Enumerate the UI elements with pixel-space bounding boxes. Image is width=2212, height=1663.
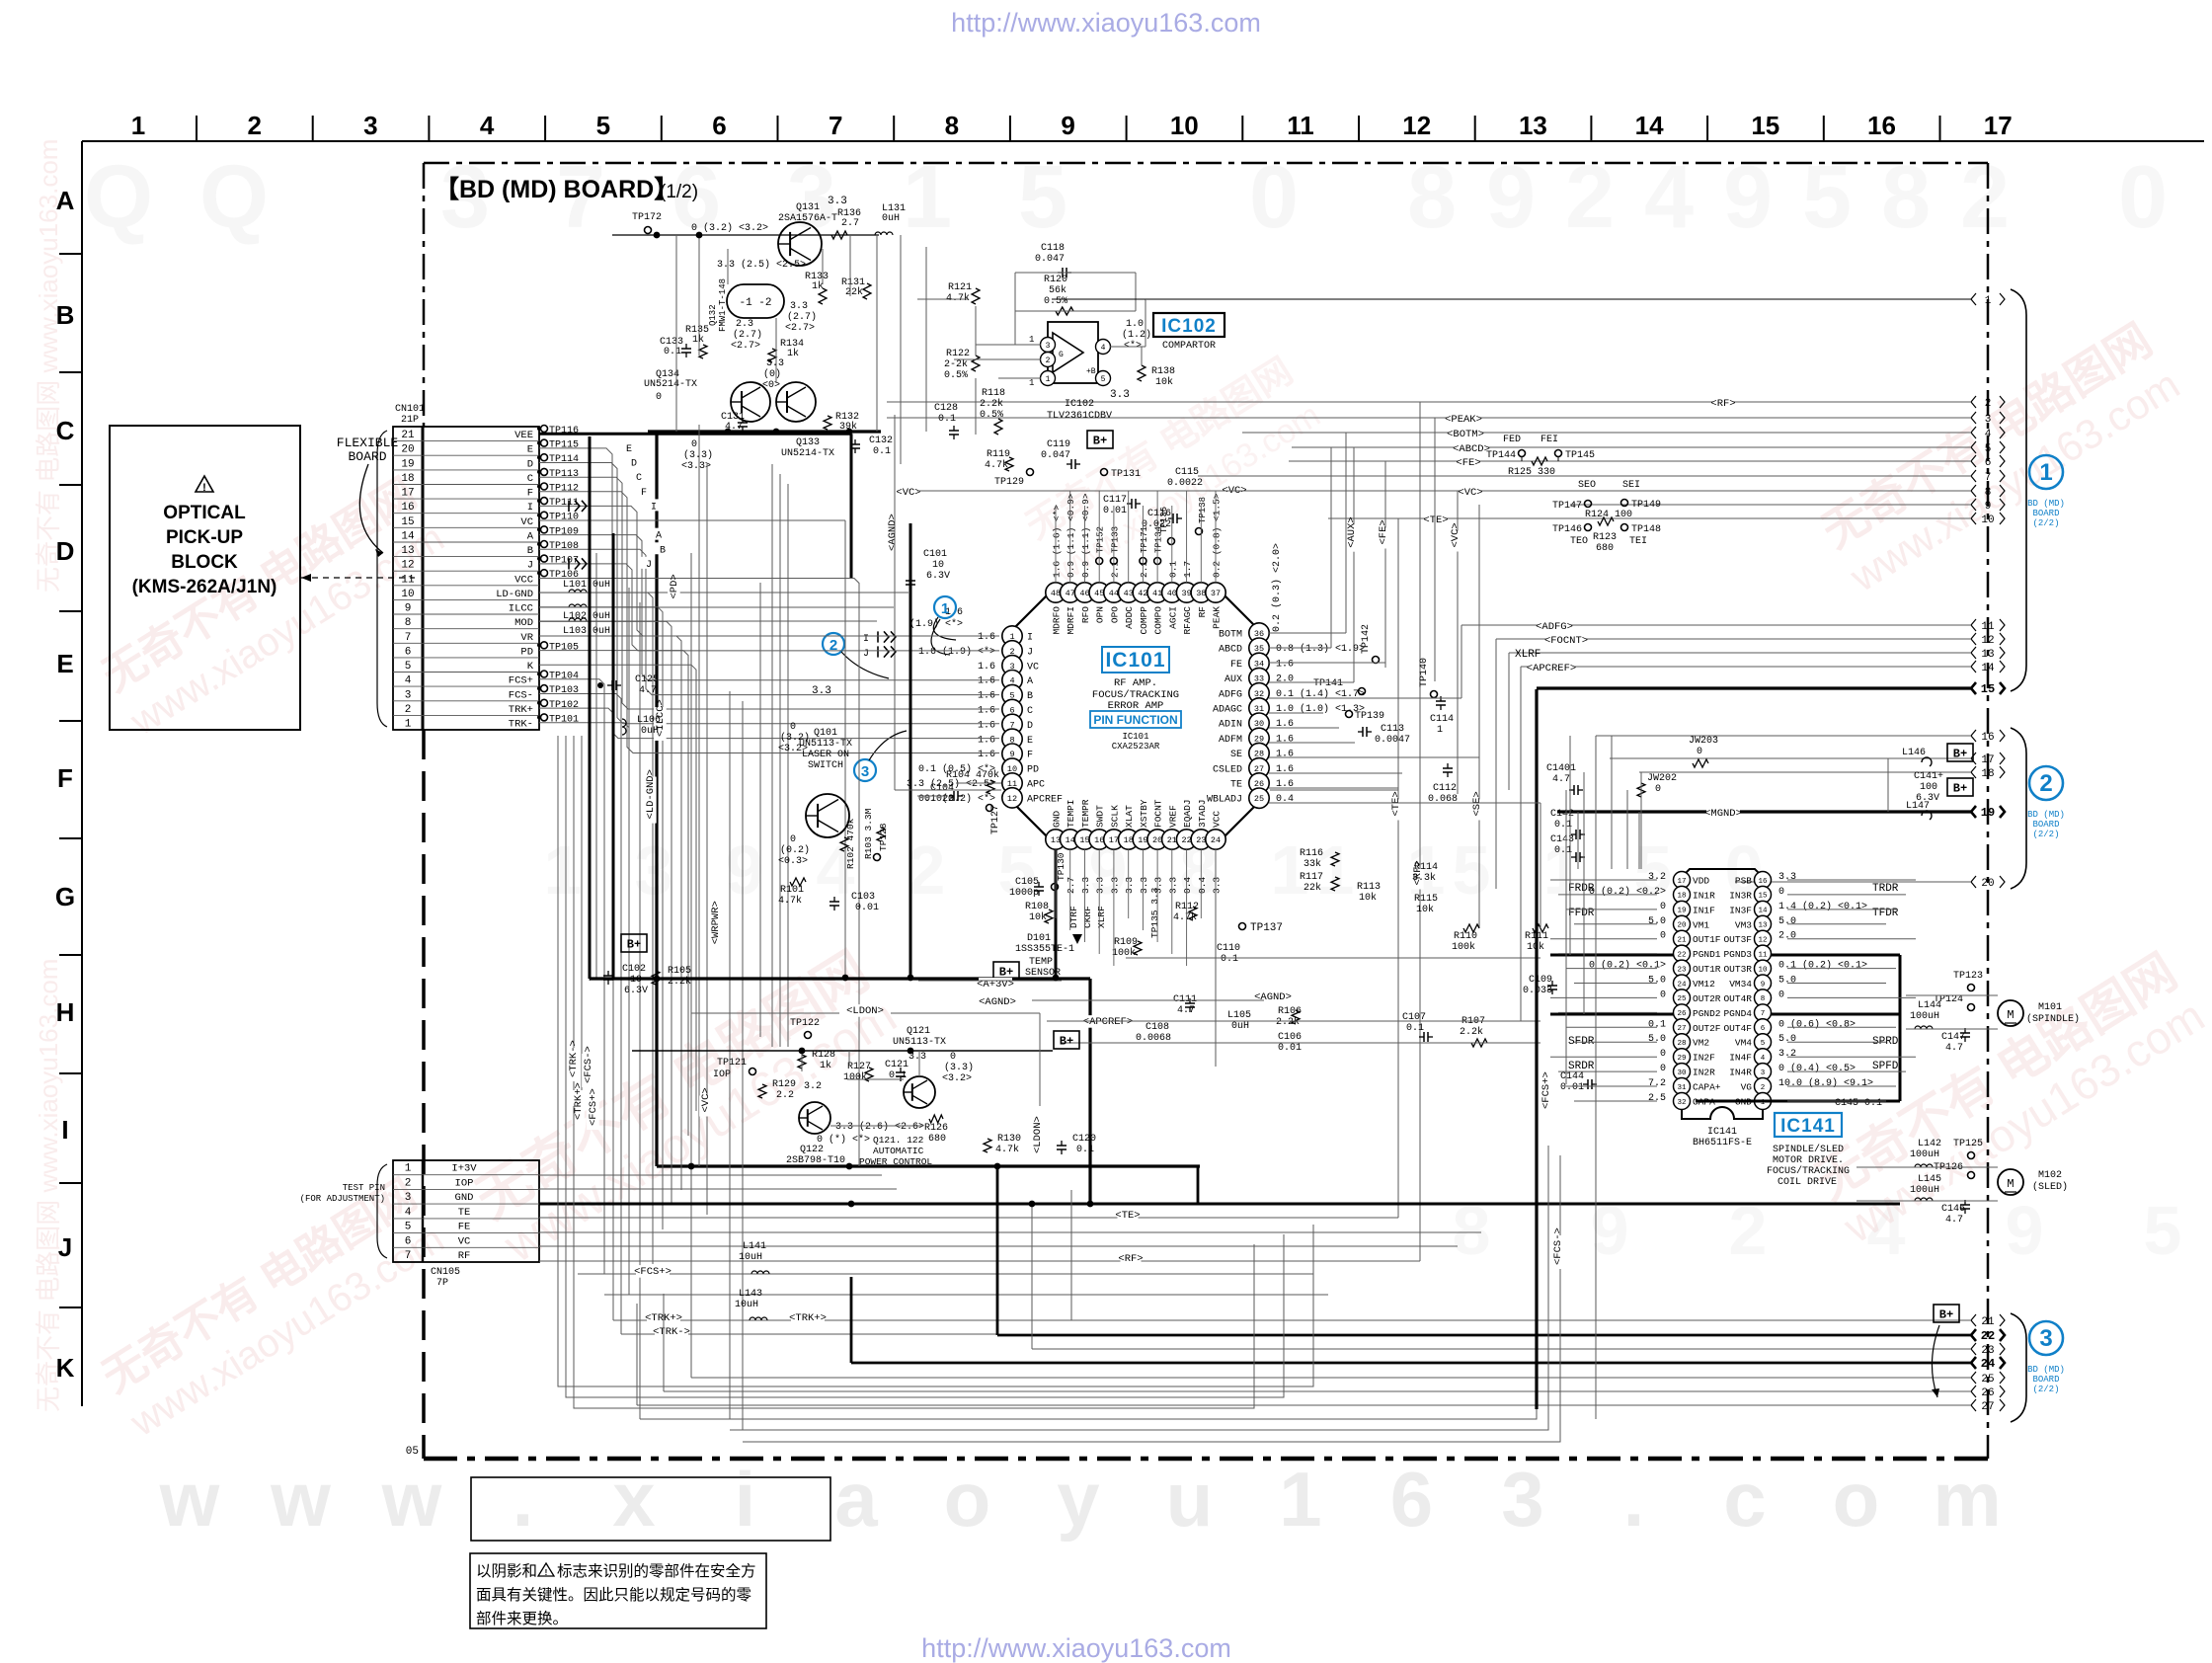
svg-text:TP131: TP131 bbox=[1111, 469, 1141, 480]
svg-text:R118: R118 bbox=[982, 388, 1005, 399]
svg-text:29: 29 bbox=[1677, 1055, 1686, 1063]
svg-text:C119: C119 bbox=[1047, 439, 1070, 450]
svg-text:9: 9 bbox=[1761, 981, 1766, 989]
svg-text:<TRK+>: <TRK+> bbox=[789, 1312, 827, 1324]
svg-text:0.047: 0.047 bbox=[1041, 450, 1070, 461]
svg-text:TP140: TP140 bbox=[1419, 658, 1430, 687]
svg-text:OUT2F: OUT2F bbox=[1693, 1023, 1721, 1034]
svg-text:0.0068: 0.0068 bbox=[1136, 1033, 1171, 1044]
svg-text:TP133: TP133 bbox=[1110, 526, 1120, 553]
svg-text:3.3 (2.6) <2.6>: 3.3 (2.6) <2.6> bbox=[835, 1121, 924, 1133]
svg-text:8: 8 bbox=[405, 617, 412, 629]
svg-text:<LDON>: <LDON> bbox=[1032, 1116, 1044, 1153]
svg-text:0.4: 0.4 bbox=[1182, 877, 1193, 894]
svg-text:IN2R: IN2R bbox=[1693, 1068, 1715, 1078]
svg-text:0 (0.6) <0.8>: 0 (0.6) <0.8> bbox=[1778, 1018, 1856, 1030]
svg-text:SPINDLE/SLED: SPINDLE/SLED bbox=[1773, 1144, 1844, 1155]
svg-text:TP103: TP103 bbox=[549, 685, 579, 696]
svg-text:RF AMP.: RF AMP. bbox=[1114, 677, 1157, 689]
svg-text:(2/2): (2/2) bbox=[2032, 830, 2059, 839]
svg-text:2: 2 bbox=[1046, 356, 1051, 365]
svg-text:100uH: 100uH bbox=[1910, 1149, 1939, 1160]
svg-text:15: 15 bbox=[1079, 835, 1089, 845]
svg-text:VM1: VM1 bbox=[1693, 919, 1709, 930]
svg-text:12: 12 bbox=[1758, 937, 1767, 945]
svg-text:24: 24 bbox=[1211, 835, 1221, 845]
svg-text:R127: R127 bbox=[847, 1062, 871, 1072]
svg-text:C118: C118 bbox=[1041, 243, 1065, 254]
svg-text:I: I bbox=[651, 502, 657, 513]
svg-text:IC141: IC141 bbox=[1780, 1116, 1836, 1137]
svg-text:2: 2 bbox=[1761, 1084, 1766, 1092]
svg-text:FMW1-T-148: FMW1-T-148 bbox=[718, 278, 728, 332]
svg-text:32: 32 bbox=[1677, 1099, 1686, 1107]
svg-text:0uH: 0uH bbox=[641, 726, 659, 737]
svg-text:MDRFO: MDRFO bbox=[1052, 606, 1063, 635]
svg-text:B+: B+ bbox=[1060, 1035, 1073, 1049]
svg-text:B+: B+ bbox=[999, 966, 1013, 980]
svg-text:3: 3 bbox=[1761, 1069, 1766, 1077]
svg-text:TP108: TP108 bbox=[549, 541, 579, 552]
svg-text:(SLED): (SLED) bbox=[2032, 1181, 2068, 1193]
svg-text:<FCS+>: <FCS+> bbox=[588, 1088, 599, 1126]
svg-text:6: 6 bbox=[405, 1235, 412, 1247]
svg-text:B+: B+ bbox=[1953, 748, 1967, 761]
svg-text:<VC>: <VC> bbox=[1450, 522, 1461, 547]
svg-text:27: 27 bbox=[1677, 1025, 1686, 1033]
svg-text:(2.7): (2.7) bbox=[733, 329, 762, 341]
svg-text:1k: 1k bbox=[812, 280, 824, 292]
svg-text:TEMPI: TEMPI bbox=[1066, 799, 1076, 828]
svg-text:FED: FED bbox=[1503, 435, 1521, 445]
svg-text:G: G bbox=[1059, 351, 1064, 359]
svg-text:B: B bbox=[527, 545, 533, 557]
svg-text:1.6: 1.6 bbox=[978, 676, 995, 687]
svg-text:6.3V: 6.3V bbox=[1916, 793, 1939, 804]
svg-text:2: 2 bbox=[2039, 770, 2052, 797]
svg-text:10k: 10k bbox=[1416, 904, 1434, 915]
svg-text:<VC>: <VC> bbox=[896, 487, 920, 499]
svg-text:w: w bbox=[270, 1456, 331, 1543]
svg-text:<FCS->: <FCS-> bbox=[583, 1046, 594, 1083]
svg-text:2: 2 bbox=[908, 831, 946, 909]
svg-text:TP109: TP109 bbox=[549, 526, 579, 537]
svg-text:1: 1 bbox=[1029, 378, 1034, 388]
svg-text:XLRF: XLRF bbox=[1096, 906, 1107, 928]
svg-text:CXA2523AR: CXA2523AR bbox=[1112, 742, 1160, 752]
svg-text:2.2k: 2.2k bbox=[980, 398, 1003, 410]
svg-text:14: 14 bbox=[401, 531, 415, 543]
svg-text:FRDR: FRDR bbox=[1568, 883, 1595, 895]
svg-text:OPTICAL: OPTICAL bbox=[163, 503, 246, 523]
svg-text:0.8 (1.3) <1.9>: 0.8 (1.3) <1.9> bbox=[1276, 643, 1365, 655]
svg-text:0.2 (0.3) <2.0>: 0.2 (0.3) <2.0> bbox=[1271, 543, 1283, 632]
svg-text:TP102: TP102 bbox=[549, 700, 579, 711]
svg-text:C112: C112 bbox=[1433, 783, 1457, 794]
svg-text:0: 0 bbox=[1660, 931, 1666, 942]
svg-text:http://www.xiaoyu163.com: http://www.xiaoyu163.com bbox=[921, 1633, 1231, 1663]
svg-text:14: 14 bbox=[1758, 908, 1768, 915]
svg-text:0.2 (0.8) <1.5>: 0.2 (0.8) <1.5> bbox=[1212, 493, 1223, 578]
svg-text:13: 13 bbox=[1519, 111, 1547, 140]
svg-text:26: 26 bbox=[1981, 1387, 1994, 1399]
svg-text:1k: 1k bbox=[692, 334, 704, 346]
svg-text:25: 25 bbox=[1254, 794, 1264, 804]
svg-text:0.01: 0.01 bbox=[855, 903, 879, 913]
svg-text:C: C bbox=[636, 473, 642, 484]
svg-text:5.0: 5.0 bbox=[1778, 916, 1796, 927]
svg-text:JW202: JW202 bbox=[1647, 773, 1677, 784]
svg-text:<APCREF>: <APCREF> bbox=[1527, 663, 1576, 674]
svg-text:1.0: 1.0 bbox=[1126, 319, 1144, 330]
svg-text:<FE>: <FE> bbox=[1378, 519, 1389, 544]
svg-text:<ADFG>: <ADFG> bbox=[1536, 621, 1573, 633]
svg-text:IN3F: IN3F bbox=[1729, 905, 1752, 915]
svg-text:4: 4 bbox=[1985, 429, 1992, 440]
svg-text:<MGND>: <MGND> bbox=[1704, 808, 1742, 820]
svg-text:16: 16 bbox=[401, 502, 414, 514]
svg-text:9: 9 bbox=[2006, 1192, 2044, 1269]
svg-text:1.6: 1.6 bbox=[978, 691, 995, 702]
svg-text:42: 42 bbox=[1138, 589, 1147, 598]
svg-text:以阴影和: 以阴影和 bbox=[476, 1562, 537, 1580]
svg-text:VC: VC bbox=[1027, 662, 1039, 673]
svg-text:UN5214-TX: UN5214-TX bbox=[644, 379, 697, 390]
svg-text:TE: TE bbox=[1230, 780, 1242, 791]
svg-text:33k: 33k bbox=[1303, 858, 1321, 870]
svg-text:SEI: SEI bbox=[1622, 480, 1640, 491]
svg-text:3.3: 3.3 bbox=[1109, 877, 1120, 894]
svg-text:L141: L141 bbox=[743, 1241, 766, 1252]
svg-text:o: o bbox=[1833, 1456, 1880, 1543]
svg-text:R120: R120 bbox=[1044, 275, 1067, 285]
svg-text:1.4 (0.2) <0.1>: 1.4 (0.2) <0.1> bbox=[1778, 901, 1867, 912]
svg-text:<TE>: <TE> bbox=[1423, 515, 1448, 526]
svg-text:0.1 (0.2) <0.1>: 0.1 (0.2) <0.1> bbox=[1778, 960, 1867, 972]
svg-text:F: F bbox=[57, 763, 73, 793]
svg-text:(SPINDLE): (SPINDLE) bbox=[2026, 1013, 2080, 1025]
svg-text:-1 -2: -1 -2 bbox=[739, 297, 771, 309]
svg-text:1.6: 1.6 bbox=[1276, 659, 1294, 670]
svg-text:FLEXIBLE: FLEXIBLE bbox=[337, 436, 399, 450]
svg-text:3: 3 bbox=[363, 111, 377, 140]
svg-text:10k: 10k bbox=[1155, 376, 1173, 388]
svg-text:<RF>: <RF> bbox=[1118, 1253, 1143, 1265]
svg-text:0: 0 bbox=[1660, 1049, 1666, 1060]
svg-text:<TRK->: <TRK-> bbox=[653, 1326, 690, 1338]
svg-text:C132: C132 bbox=[869, 436, 893, 446]
svg-text:Q131: Q131 bbox=[796, 202, 820, 213]
svg-text:TP111: TP111 bbox=[549, 498, 579, 509]
svg-text:FOCUS/TRACKING: FOCUS/TRACKING bbox=[1767, 1165, 1850, 1177]
svg-text:<AGND>: <AGND> bbox=[887, 514, 899, 551]
svg-text:1k: 1k bbox=[787, 348, 799, 359]
svg-text:BOARD: BOARD bbox=[2032, 820, 2059, 830]
svg-text:7: 7 bbox=[1985, 472, 1992, 484]
svg-text:1.6: 1.6 bbox=[1276, 750, 1294, 760]
svg-text:J: J bbox=[646, 560, 652, 571]
svg-text:1.6: 1.6 bbox=[978, 632, 995, 643]
svg-text:TEI: TEI bbox=[1629, 536, 1647, 547]
svg-text:100uH: 100uH bbox=[1910, 1185, 1939, 1196]
svg-text:4.7k: 4.7k bbox=[778, 895, 802, 907]
svg-text:R108: R108 bbox=[1025, 902, 1049, 912]
svg-text:Q122: Q122 bbox=[800, 1145, 824, 1155]
svg-text:TP115: TP115 bbox=[549, 440, 579, 451]
svg-text:VM2: VM2 bbox=[1693, 1038, 1709, 1049]
svg-text:D101: D101 bbox=[1027, 933, 1051, 944]
svg-text:<LD-GND>: <LD-GND> bbox=[645, 769, 657, 819]
svg-text:13: 13 bbox=[1758, 922, 1768, 930]
svg-text:R121: R121 bbox=[948, 282, 972, 293]
svg-text:PGND3: PGND3 bbox=[1723, 949, 1752, 960]
svg-text:<2.7>: <2.7> bbox=[785, 323, 815, 334]
svg-text:680: 680 bbox=[1596, 543, 1614, 554]
svg-text:0 (0.2) <0.1>: 0 (0.2) <0.1> bbox=[1589, 960, 1666, 972]
svg-text:0.0047: 0.0047 bbox=[1375, 735, 1410, 746]
svg-text:19: 19 bbox=[1138, 835, 1147, 845]
svg-text:18: 18 bbox=[1124, 835, 1134, 845]
svg-text:0.5%: 0.5% bbox=[944, 370, 968, 381]
svg-text:PIN FUNCTION: PIN FUNCTION bbox=[1093, 713, 1177, 727]
svg-text:CKRF: CKRF bbox=[1082, 906, 1093, 928]
svg-text:3: 3 bbox=[861, 763, 869, 780]
svg-text:16: 16 bbox=[1094, 835, 1104, 845]
svg-text:0.01: 0.01 bbox=[1278, 1043, 1302, 1054]
svg-text:1.6: 1.6 bbox=[978, 735, 995, 746]
svg-text:I: I bbox=[527, 502, 533, 514]
svg-text:6.3V: 6.3V bbox=[624, 986, 648, 996]
svg-text:<WRPWR>: <WRPWR> bbox=[710, 901, 722, 944]
svg-text:4.7: 4.7 bbox=[1945, 1215, 1963, 1226]
svg-text:IC101: IC101 bbox=[1105, 649, 1165, 672]
svg-text:3: 3 bbox=[2039, 1325, 2052, 1352]
svg-text:ABCD: ABCD bbox=[1219, 645, 1242, 656]
svg-text:J: J bbox=[1027, 647, 1033, 658]
svg-text:TP127: TP127 bbox=[990, 805, 1001, 834]
svg-text:OUT2R: OUT2R bbox=[1693, 993, 1721, 1004]
svg-text:0.9 (1.1) <0.9>: 0.9 (1.1) <0.9> bbox=[1066, 493, 1076, 578]
svg-text:37: 37 bbox=[1211, 589, 1221, 598]
svg-text:M101: M101 bbox=[2038, 1002, 2062, 1013]
svg-text:C117: C117 bbox=[1103, 495, 1127, 506]
svg-text:VDD: VDD bbox=[1693, 876, 1709, 887]
svg-text:TEMPR: TEMPR bbox=[1080, 799, 1091, 828]
svg-text:L101 0uH: L101 0uH bbox=[563, 580, 610, 591]
svg-text:0 (0.2) <0.2>: 0 (0.2) <0.2> bbox=[1589, 886, 1666, 898]
svg-text:(2/2): (2/2) bbox=[2032, 1385, 2059, 1394]
svg-text:100: 100 bbox=[1920, 782, 1937, 793]
svg-text:43: 43 bbox=[1124, 589, 1134, 598]
svg-text:2.2k: 2.2k bbox=[1460, 1026, 1483, 1038]
svg-text:ILCC: ILCC bbox=[509, 603, 533, 615]
svg-text:TP104: TP104 bbox=[549, 672, 579, 682]
svg-text:2: 2 bbox=[247, 111, 261, 140]
svg-text:<LDON>: <LDON> bbox=[846, 1005, 884, 1017]
svg-text:1k: 1k bbox=[820, 1060, 831, 1071]
svg-text:C116: C116 bbox=[1147, 509, 1171, 519]
svg-text:B+: B+ bbox=[1093, 435, 1107, 448]
svg-text:(1/2): (1/2) bbox=[660, 182, 698, 202]
svg-text:100k: 100k bbox=[1112, 947, 1136, 959]
svg-text:PSB: PSB bbox=[1735, 876, 1752, 887]
svg-text:6: 6 bbox=[405, 646, 412, 658]
svg-text:x: x bbox=[612, 1456, 655, 1543]
svg-text:48: 48 bbox=[1051, 589, 1061, 598]
svg-text:POWER CONTROL: POWER CONTROL bbox=[859, 1156, 932, 1167]
svg-text:OUT1F: OUT1F bbox=[1693, 934, 1721, 945]
svg-text:5: 5 bbox=[405, 661, 412, 673]
svg-text:M: M bbox=[2007, 1008, 2014, 1022]
svg-text:0: 0 bbox=[1660, 990, 1666, 1000]
svg-text:40: 40 bbox=[1167, 589, 1177, 598]
svg-text:0.1: 0.1 bbox=[1648, 1019, 1666, 1030]
svg-text:5: 5 bbox=[1101, 375, 1106, 384]
svg-text:TP172: TP172 bbox=[632, 212, 662, 223]
svg-text:23: 23 bbox=[1677, 966, 1687, 974]
svg-text:1.6: 1.6 bbox=[978, 662, 995, 673]
svg-text:R117: R117 bbox=[1300, 872, 1323, 883]
svg-text:D: D bbox=[527, 458, 533, 470]
svg-text:10k: 10k bbox=[1359, 892, 1377, 904]
svg-text:C: C bbox=[527, 473, 533, 485]
svg-text:<SE>: <SE> bbox=[1471, 791, 1483, 816]
svg-text:SEO: SEO bbox=[1578, 480, 1596, 491]
svg-text:【BD (MD) BOARD】: 【BD (MD) BOARD】 bbox=[434, 176, 678, 203]
svg-text:FCS-: FCS- bbox=[509, 689, 533, 701]
svg-text:21: 21 bbox=[1677, 937, 1687, 945]
svg-text:COMPP: COMPP bbox=[1139, 606, 1149, 635]
svg-text:R124 100: R124 100 bbox=[1585, 510, 1632, 520]
svg-text:<VC>: <VC> bbox=[1458, 487, 1482, 499]
svg-text:5.0: 5.0 bbox=[1778, 1034, 1796, 1045]
svg-text:B+: B+ bbox=[1939, 1308, 1953, 1322]
svg-text:2.2k: 2.2k bbox=[668, 976, 691, 988]
svg-text:TP110: TP110 bbox=[549, 513, 579, 523]
svg-text:15: 15 bbox=[1751, 111, 1779, 140]
svg-text:(0): (0) bbox=[763, 368, 781, 380]
svg-text:(3.3): (3.3) bbox=[944, 1062, 974, 1073]
svg-text:ADIN: ADIN bbox=[1219, 720, 1242, 731]
svg-text:E: E bbox=[1027, 736, 1033, 747]
svg-text:45: 45 bbox=[1094, 589, 1104, 598]
svg-text:C1401: C1401 bbox=[1546, 763, 1576, 774]
svg-text:C114: C114 bbox=[1430, 714, 1454, 725]
svg-text:AUTOMATIC: AUTOMATIC bbox=[873, 1146, 924, 1156]
svg-text:17: 17 bbox=[1677, 878, 1686, 886]
svg-text:TP105: TP105 bbox=[549, 642, 579, 653]
svg-text:XLAT: XLAT bbox=[1124, 805, 1135, 828]
svg-text:MOTOR DRIVE.: MOTOR DRIVE. bbox=[1773, 1155, 1844, 1166]
svg-text:VC: VC bbox=[458, 1235, 471, 1247]
svg-text:APC: APC bbox=[1027, 780, 1045, 791]
svg-text:3.3: 3.3 bbox=[812, 685, 831, 697]
svg-text:B: B bbox=[56, 300, 75, 330]
svg-text:4: 4 bbox=[405, 1207, 412, 1219]
svg-text:46: 46 bbox=[1079, 589, 1089, 598]
svg-text:D: D bbox=[56, 536, 75, 566]
svg-text:1: 1 bbox=[1029, 335, 1034, 345]
svg-text:A: A bbox=[527, 531, 534, 543]
svg-text:0.5%: 0.5% bbox=[1044, 296, 1067, 307]
svg-text:SCLK: SCLK bbox=[1109, 805, 1120, 828]
svg-text:PGND4: PGND4 bbox=[1723, 1008, 1752, 1019]
svg-text:3.2: 3.2 bbox=[1648, 872, 1666, 883]
svg-text:R104 470k: R104 470k bbox=[946, 769, 999, 781]
svg-text:5: 5 bbox=[2144, 1192, 2182, 1269]
svg-text:4.7: 4.7 bbox=[639, 685, 657, 696]
svg-text:(KMS-262A/J1N): (KMS-262A/J1N) bbox=[132, 577, 277, 597]
svg-text:3: 3 bbox=[405, 1192, 412, 1204]
svg-text:100uH: 100uH bbox=[1910, 1011, 1939, 1022]
svg-text:TP146: TP146 bbox=[1552, 524, 1582, 535]
svg-text:TE: TE bbox=[458, 1207, 471, 1219]
svg-text:0.0022: 0.0022 bbox=[1167, 478, 1203, 489]
svg-text:7: 7 bbox=[405, 632, 412, 644]
svg-text:VCC: VCC bbox=[1212, 811, 1223, 828]
svg-text:AGCI: AGCI bbox=[1167, 606, 1178, 629]
svg-text:8: 8 bbox=[945, 111, 959, 140]
svg-text:COMPO: COMPO bbox=[1153, 606, 1164, 635]
svg-text:G: G bbox=[55, 882, 75, 911]
svg-text:C110: C110 bbox=[1217, 943, 1240, 954]
svg-text:IC141: IC141 bbox=[1707, 1127, 1737, 1138]
svg-text:C102: C102 bbox=[622, 964, 646, 975]
svg-text:3.2: 3.2 bbox=[804, 1081, 822, 1092]
svg-text:<BOTM>: <BOTM> bbox=[1447, 429, 1484, 440]
svg-text:M: M bbox=[2007, 1177, 2014, 1191]
svg-text:30: 30 bbox=[1677, 1069, 1687, 1077]
svg-text:3.3: 3.3 bbox=[1212, 877, 1223, 894]
svg-text:2.5: 2.5 bbox=[1648, 1093, 1666, 1104]
svg-text:19: 19 bbox=[1677, 908, 1686, 915]
svg-text:0: 0 bbox=[1697, 747, 1702, 757]
svg-text:CAPA+: CAPA+ bbox=[1693, 1082, 1721, 1093]
svg-text:TP141: TP141 bbox=[1313, 678, 1343, 689]
svg-text:14: 14 bbox=[1066, 835, 1075, 845]
svg-text:JW203: JW203 bbox=[1689, 736, 1718, 747]
svg-text:(2.7): (2.7) bbox=[787, 311, 817, 323]
svg-text:TP114: TP114 bbox=[549, 454, 579, 465]
svg-text:22: 22 bbox=[1181, 835, 1191, 845]
svg-text:K: K bbox=[56, 1353, 75, 1383]
svg-text:E: E bbox=[527, 444, 533, 456]
svg-text:3.3: 3.3 bbox=[1167, 877, 1178, 894]
svg-text:0.1: 0.1 bbox=[1221, 954, 1238, 965]
svg-text:B: B bbox=[1027, 691, 1033, 702]
svg-text:Q121. 122: Q121. 122 bbox=[873, 1135, 924, 1146]
svg-text:2.7: 2.7 bbox=[841, 218, 859, 229]
svg-text:12: 12 bbox=[1402, 111, 1431, 140]
svg-text:R123: R123 bbox=[1593, 532, 1617, 543]
svg-text:OPO: OPO bbox=[1109, 606, 1120, 623]
svg-text:TP137: TP137 bbox=[1250, 922, 1283, 934]
svg-text:<TRK+>: <TRK+> bbox=[573, 1082, 585, 1120]
svg-text:R114: R114 bbox=[1414, 862, 1438, 873]
svg-text:100k: 100k bbox=[1452, 941, 1475, 953]
svg-text:<TE>: <TE> bbox=[1390, 791, 1402, 816]
svg-text:2: 2 bbox=[405, 704, 412, 716]
svg-text:18: 18 bbox=[1677, 893, 1686, 901]
svg-text:22k: 22k bbox=[845, 286, 863, 298]
svg-text:(FOR ADJUSTMENT): (FOR ADJUSTMENT) bbox=[300, 1194, 385, 1204]
svg-text:19: 19 bbox=[1981, 806, 1995, 820]
svg-text:10: 10 bbox=[401, 589, 414, 600]
svg-text:1: 1 bbox=[1271, 831, 1309, 909]
svg-text:Q101: Q101 bbox=[814, 728, 837, 739]
svg-text:TP107: TP107 bbox=[549, 556, 579, 567]
svg-text:21: 21 bbox=[1167, 835, 1177, 845]
